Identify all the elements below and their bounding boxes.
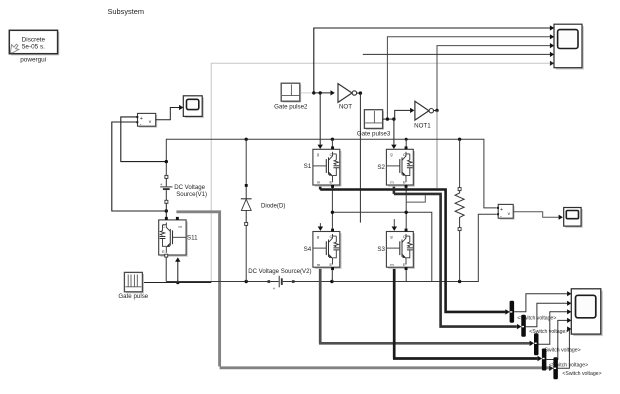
- node dot S1 E / S4 C: [331, 211, 334, 214]
- IGBT block S3: [386, 229, 415, 271]
- wire stair stub near S2: [406, 195, 425, 202]
- NOT gate: [338, 84, 357, 103]
- wire mid node line: [332, 185, 431, 282]
- svg-text:S3: S3: [377, 246, 385, 253]
- wire selector2 output riser: [526, 303, 568, 326]
- wire selector1 output riser: [514, 294, 568, 312]
- wire selector4 output riser: [546, 320, 567, 359]
- node dot V1 bottom junction: [165, 209, 168, 212]
- svg-text:+: +: [500, 207, 503, 213]
- bus selector 4: [542, 349, 547, 371]
- svg-text:E: E: [162, 249, 165, 254]
- svg-text:Diode(D): Diode(D): [261, 202, 285, 209]
- scope2 block: [564, 208, 583, 228]
- gate pulse block: [124, 272, 144, 293]
- gate pulse2 block: [281, 83, 301, 102]
- svg-text:C: C: [162, 224, 165, 229]
- node dot S4 E: [330, 280, 333, 283]
- wire NOT1 output down: [436, 111, 438, 189]
- diode D: [241, 139, 252, 281]
- svg-text:Gate pulse: Gate pulse: [118, 293, 148, 300]
- thick line S1 m output: [320, 185, 505, 312]
- wire gate pulse output: [143, 282, 212, 284]
- voltage measurement block VM1: [136, 113, 157, 127]
- resistor branch: [455, 139, 464, 281]
- wire selector3 output riser: [539, 312, 568, 345]
- wire to NOT input: [314, 92, 331, 94]
- svg-text:S4: S4: [304, 246, 312, 253]
- wire scope4 line4 from NOT output: [363, 53, 550, 55]
- wire S11 gate from Gate pulse: [177, 261, 179, 282]
- scope5 block bottom right: [571, 289, 603, 336]
- wire scope4 line5 faint (S11 gate signal to scope): [211, 63, 549, 282]
- node dot S2 C: [405, 138, 408, 141]
- wire scope4 line3 from NOT1 output: [437, 46, 550, 111]
- wire NOT1 output node: [434, 110, 438, 112]
- svg-text:5e-05 s.: 5e-05 s.: [22, 44, 45, 51]
- wire VM1 output to scope1: [156, 108, 180, 120]
- voltage measurement block VM2: [497, 204, 515, 219]
- node dot resistor top: [458, 138, 461, 141]
- wire S3 E to rail: [405, 270, 407, 281]
- node dot S1 gate branch: [319, 91, 322, 94]
- thick line S11 m output (gray): [176, 212, 549, 368]
- wire scope4 line1 from gate pulse2 node: [314, 28, 550, 93]
- svg-text:NOT1: NOT1: [414, 123, 431, 130]
- svg-text:<Switch voltage>: <Switch voltage>: [542, 347, 581, 353]
- wire S4 gate arrow: [319, 223, 321, 227]
- scope1 block: [183, 96, 204, 118]
- svg-text:powergui: powergui: [20, 57, 46, 64]
- wire S2 C stub: [405, 139, 407, 149]
- wire scope4 line2 from gate pulse3 node: [387, 37, 550, 119]
- scope4 block top right: [554, 24, 584, 69]
- wire S11 E to rail: [165, 257, 167, 281]
- node dot S2 E / S3 C: [405, 211, 408, 214]
- wire VM2 output to scope2: [513, 212, 558, 218]
- IGBT block S2: [386, 146, 415, 188]
- IGBT block S11 (rotated): [159, 217, 188, 257]
- svg-text:Gate pulse3: Gate pulse3: [357, 130, 391, 137]
- bus selector 5: [553, 357, 558, 379]
- svg-text:Gate pulse2: Gate pulse2: [274, 104, 308, 111]
- DC voltage source V1: [160, 175, 173, 203]
- svg-text:Discrete: Discrete: [22, 37, 46, 44]
- powergui block: [9, 30, 59, 55]
- svg-text:<Switch voltage>: <Switch voltage>: [562, 371, 601, 377]
- wire NOT output node: [357, 92, 361, 94]
- cursor icon: [10, 44, 18, 53]
- svg-text:-: -: [140, 122, 142, 128]
- thick line S4 m output (dark gray): [319, 267, 530, 343]
- wire selector5 output riser: [558, 329, 570, 368]
- node dot diode top: [245, 138, 248, 141]
- wire S4 E to rail: [331, 270, 333, 281]
- bus selector 1: [510, 301, 514, 323]
- svg-text:m: m: [179, 224, 182, 229]
- svg-text:DC Voltage Source(V2): DC Voltage Source(V2): [248, 268, 311, 275]
- wire NOT output down (to S4 gate region): [359, 93, 361, 223]
- thick line S3 m output: [393, 267, 537, 358]
- node dot resistor bottom: [458, 280, 461, 283]
- bus selector 3: [534, 333, 539, 355]
- wire V1 bottom to S11: [165, 203, 167, 217]
- wire S3 gate arrow: [393, 219, 395, 227]
- svg-text:S11: S11: [187, 234, 198, 241]
- bus selector 2: [521, 315, 526, 337]
- svg-text:-: -: [500, 214, 502, 220]
- IGBT block S1: [313, 146, 342, 188]
- svg-text:+: +: [273, 287, 276, 292]
- NOT1 gate: [415, 101, 434, 120]
- wire bottom rail: [166, 214, 497, 281]
- node dot diode bottom: [245, 280, 248, 283]
- svg-text:S2: S2: [377, 164, 385, 171]
- svg-text:Source(V1): Source(V1): [176, 191, 207, 198]
- svg-text:Subsystem: Subsystem: [108, 7, 145, 16]
- svg-text:S1: S1: [304, 163, 312, 170]
- DC voltage source V2: [268, 276, 295, 292]
- node dot gate pulse2 net: [312, 91, 315, 94]
- voltage measurement VM1 wires: [121, 117, 167, 162]
- node dot S1 C: [331, 138, 334, 141]
- svg-text:DC Voltage: DC Voltage: [174, 184, 205, 191]
- wire gate pulse3 output: [383, 118, 394, 120]
- gate pulse3 block: [364, 110, 384, 130]
- wire S2 gate: [393, 119, 395, 145]
- wire to NOT1 input: [394, 110, 410, 119]
- svg-text:+: +: [160, 183, 163, 188]
- wire gate pulse2 output: [300, 92, 314, 94]
- node dot gate pulse branch: [176, 281, 179, 284]
- svg-text:NOT: NOT: [339, 104, 352, 111]
- wire S1 gate: [319, 93, 321, 145]
- wire top net DC plus: [166, 139, 497, 208]
- IGBT block S4: [313, 229, 342, 271]
- wire S1 C stub: [331, 139, 333, 149]
- thick line S2 m output: [394, 185, 517, 327]
- node dot V1 top junction: [165, 160, 168, 163]
